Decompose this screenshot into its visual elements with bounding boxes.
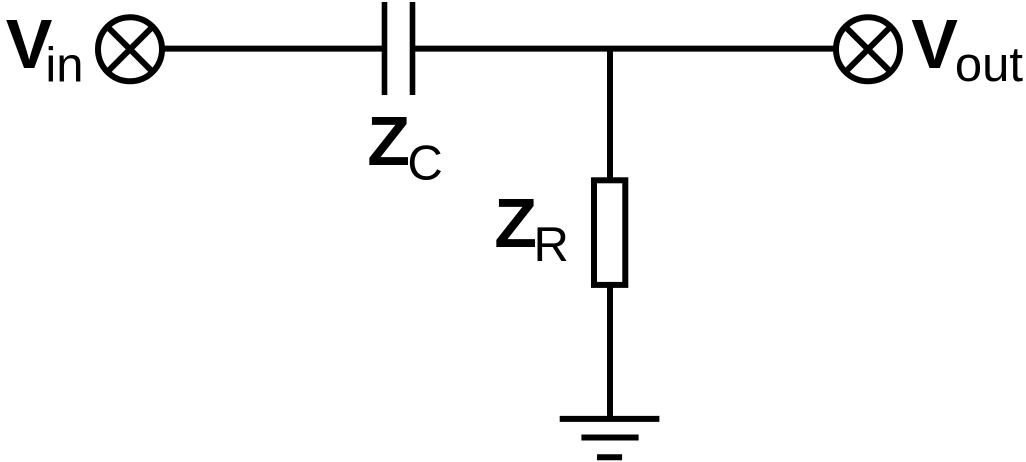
- svg-text:R: R: [534, 218, 569, 272]
- svg-text:C: C: [407, 137, 442, 191]
- svg-text:Z: Z: [494, 184, 537, 262]
- svg-text:V: V: [911, 5, 958, 83]
- svg-text:in: in: [45, 39, 83, 93]
- svg-text:out: out: [955, 38, 1024, 92]
- svg-text:Z: Z: [367, 102, 410, 180]
